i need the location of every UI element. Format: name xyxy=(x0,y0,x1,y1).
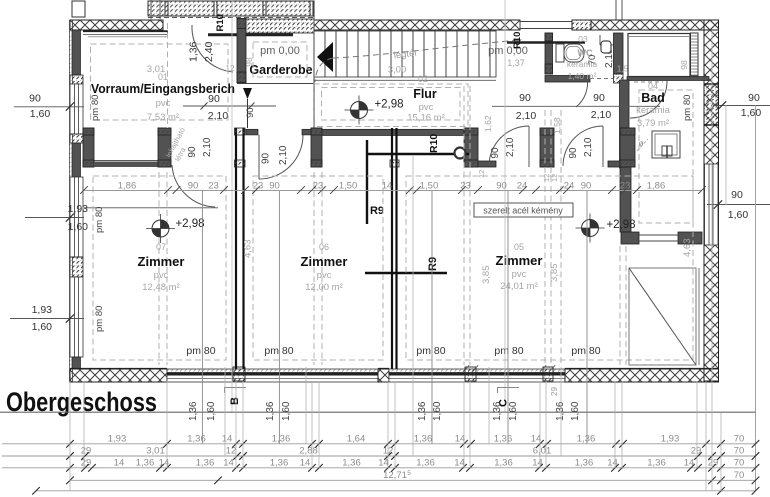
stair tread 5 xyxy=(368,31,370,77)
svg-text:90: 90 xyxy=(29,93,41,105)
outer wall right (cross-hatch) xyxy=(704,20,719,381)
window left mid xyxy=(70,177,83,257)
svg-text:Garderobe: Garderobe xyxy=(249,63,312,77)
left wall dark corner xyxy=(72,357,81,369)
left wall pier xyxy=(70,134,83,143)
svg-text:70: 70 xyxy=(734,433,745,444)
outer wall bottom seg3 (cross-hatch) xyxy=(565,369,719,382)
top wall pier diag hatch xyxy=(572,20,591,30)
svg-text:06: 06 xyxy=(319,242,329,252)
chimney vertical bold xyxy=(366,140,368,224)
dashed inset Bad xyxy=(639,90,693,223)
svg-text:B: B xyxy=(229,397,241,405)
svg-text:pm 80: pm 80 xyxy=(682,95,693,121)
svg-text:1,60: 1,60 xyxy=(68,221,89,233)
Bad tub (empty rect) xyxy=(628,34,690,77)
svg-text:1,36: 1,36 xyxy=(136,457,155,468)
svg-text:1,36: 1,36 xyxy=(272,433,291,444)
Bad south wall seg1 xyxy=(621,232,639,244)
stair tread 13 xyxy=(456,31,458,77)
stair tread 15 xyxy=(478,31,480,77)
svg-text:1,36: 1,36 xyxy=(555,401,566,421)
pipe circle xyxy=(455,148,466,159)
svg-text:1,36: 1,36 xyxy=(416,457,435,468)
svg-text:pm 80: pm 80 xyxy=(94,306,105,332)
svg-text:pm 80: pm 80 xyxy=(571,345,600,357)
svg-text:1,60: 1,60 xyxy=(30,108,51,120)
svg-text:1,86: 1,86 xyxy=(647,180,666,191)
svg-text:1,93: 1,93 xyxy=(108,433,127,444)
dashed inset Garderobe xyxy=(253,42,307,77)
outer wall top seg left (cross-hatch) xyxy=(70,20,163,30)
section line B xyxy=(231,0,233,412)
garderobe west wall post xyxy=(237,19,246,83)
walking line into garderobe xyxy=(315,58,333,82)
stair tread 7 xyxy=(390,31,392,77)
stair tread 10 xyxy=(423,31,425,77)
small wall stub top-left corner xyxy=(72,1,85,17)
stair tread 16 xyxy=(489,31,491,77)
lintel over WC xyxy=(520,22,572,29)
window centerline xyxy=(507,191,509,444)
svg-text:90: 90 xyxy=(581,180,592,191)
svg-text:Flur: Flur xyxy=(413,87,437,101)
Bad west wall xyxy=(620,80,630,168)
band post at left wall xyxy=(83,128,94,167)
stair tread 4 xyxy=(357,31,359,77)
garderobe top wall diag hatch xyxy=(246,19,314,33)
svg-text:pvc: pvc xyxy=(156,98,171,109)
dashed pair chimney right xyxy=(544,110,546,365)
Bad west wall lower xyxy=(620,167,631,232)
svg-text:90: 90 xyxy=(245,107,256,118)
svg-text:14: 14 xyxy=(532,457,543,468)
level marker Zimmer1 xyxy=(152,220,169,237)
washbasin outer xyxy=(652,131,680,158)
stair tread 12 xyxy=(445,31,447,77)
svg-text:1,60: 1,60 xyxy=(432,401,443,421)
svg-text:29: 29 xyxy=(550,387,559,396)
band upper strip xyxy=(246,129,258,135)
svg-text:5: 5 xyxy=(407,470,411,477)
dashed pair Zimmer2 xyxy=(313,172,315,365)
window centerline xyxy=(201,191,203,444)
svg-text:pm 80: pm 80 xyxy=(94,207,105,233)
extension lines xyxy=(69,381,71,491)
svg-text:90: 90 xyxy=(496,180,507,191)
svg-text:90: 90 xyxy=(568,147,579,159)
svg-text:7,53 m²: 7,53 m² xyxy=(147,112,179,123)
WC door opening dashed xyxy=(590,78,613,80)
svg-text:Zimmer: Zimmer xyxy=(138,254,185,269)
svg-text:Zimmer: Zimmer xyxy=(301,254,348,269)
radiator strip xyxy=(691,33,699,76)
interior dimension chain line xyxy=(84,190,702,192)
stairs bottom second line xyxy=(314,79,496,81)
svg-text:90: 90 xyxy=(490,147,501,159)
outer wall top seg middle (cross-hatch) xyxy=(314,20,520,30)
svg-text:6,01: 6,01 xyxy=(533,446,552,457)
svg-text:2,10: 2,10 xyxy=(278,145,289,165)
svg-text:1,37: 1,37 xyxy=(507,58,525,68)
toilet bowl xyxy=(564,44,584,62)
svg-text:1,93: 1,93 xyxy=(68,203,89,215)
band post chimney corner xyxy=(464,128,478,167)
svg-text:1,50: 1,50 xyxy=(339,180,358,191)
band post Bad corner xyxy=(620,128,635,167)
dashed inset Vorraum xyxy=(91,44,229,120)
title underline xyxy=(0,411,756,413)
svg-text:12,00 m²: 12,00 m² xyxy=(305,282,343,293)
svg-text:R10: R10 xyxy=(428,134,440,153)
svg-text:90: 90 xyxy=(519,92,531,104)
svg-text:pm 0,00: pm 0,00 xyxy=(260,45,300,57)
svg-text:pm 80: pm 80 xyxy=(186,345,215,357)
band upper strip xyxy=(302,129,311,135)
outer wall bottom seg2 (cross-hatch) xyxy=(378,369,389,382)
svg-text:1,36: 1,36 xyxy=(492,401,503,421)
garderobe east boundary xyxy=(313,16,315,128)
svg-text:02: 02 xyxy=(418,74,428,84)
chimney horizontal bold xyxy=(367,153,470,155)
svg-text:R10: R10 xyxy=(512,32,523,49)
svg-text:1,36: 1,36 xyxy=(187,433,206,444)
svg-text:pvc: pvc xyxy=(317,270,332,281)
svg-text:1,36: 1,36 xyxy=(575,457,594,468)
bottom wall pier xyxy=(543,367,553,381)
svg-text:1,60: 1,60 xyxy=(508,401,519,421)
band post xyxy=(540,128,554,167)
wall stairs/WC xyxy=(545,33,553,74)
svg-text:1,36: 1,36 xyxy=(196,457,215,468)
svg-text:R9: R9 xyxy=(427,257,439,271)
svg-text:1,60: 1,60 xyxy=(206,401,217,421)
dashed pair chimney left xyxy=(463,86,465,365)
stub lines above Bad west wall xyxy=(615,0,617,20)
dashed inset Zimmer3 xyxy=(406,176,693,360)
WC/Bad upper wall xyxy=(614,33,624,74)
svg-text:70: 70 xyxy=(734,446,745,457)
WC door arc xyxy=(576,77,588,107)
svg-text:1,36: 1,36 xyxy=(494,457,513,468)
chimney horizontal bold 2 xyxy=(365,272,447,274)
svg-text:pm 80: pm 80 xyxy=(90,95,101,121)
left wall pier xyxy=(70,257,83,277)
svg-text:90: 90 xyxy=(187,146,198,158)
dashed inset Zimmer2 xyxy=(253,176,383,360)
WC handrail thick line xyxy=(507,41,585,44)
svg-text:1,36: 1,36 xyxy=(414,433,433,444)
garderobe door wedge xyxy=(243,88,252,99)
entrance sidelight beam xyxy=(83,30,168,32)
stair walking line xyxy=(333,40,520,58)
svg-text:3,79 m²: 3,79 m² xyxy=(637,118,669,129)
dim row lines xyxy=(2,443,756,445)
svg-text:90: 90 xyxy=(261,152,272,164)
block divider 2 xyxy=(213,1,215,16)
garderobe shelf thick line xyxy=(208,33,293,36)
stair tread 8 xyxy=(401,31,403,77)
svg-text:1,36: 1,36 xyxy=(577,433,596,444)
svg-text:3,01: 3,01 xyxy=(146,446,165,457)
outer wall top seg right (cross-hatch) xyxy=(591,20,719,30)
door Zimmer3b arc xyxy=(563,126,603,166)
svg-text:90: 90 xyxy=(269,180,280,191)
bottom window band 1 xyxy=(167,369,378,382)
svg-text:1,36: 1,36 xyxy=(270,457,289,468)
svg-text:1,60: 1,60 xyxy=(281,401,292,421)
svg-text:12: 12 xyxy=(477,170,486,178)
svg-text:98: 98 xyxy=(679,60,689,70)
svg-text:3,85: 3,85 xyxy=(549,264,560,283)
svg-text:70: 70 xyxy=(587,55,598,66)
outer wall left: outer hatch strip xyxy=(70,20,73,382)
stair tread 9 xyxy=(412,31,414,77)
svg-text:4,63: 4,63 xyxy=(682,239,693,258)
svg-text:2,10: 2,10 xyxy=(516,110,537,122)
band post xyxy=(158,128,171,167)
stair tread 1 xyxy=(324,31,326,77)
svg-text:1,50: 1,50 xyxy=(420,180,439,191)
left wall dark core upper xyxy=(72,30,81,75)
stair tread 11 xyxy=(434,31,436,77)
svg-text:24: 24 xyxy=(517,180,528,191)
svg-text:70: 70 xyxy=(734,457,745,468)
svg-text:1,64: 1,64 xyxy=(347,433,366,444)
Bad door opening dashes xyxy=(634,81,663,83)
svg-text:Zimmer: Zimmer xyxy=(496,253,543,268)
svg-text:1,36: 1,36 xyxy=(342,457,361,468)
lower strip xyxy=(478,161,496,167)
bottom wall pier xyxy=(233,367,245,381)
svg-text:05: 05 xyxy=(514,242,524,252)
door dim line xyxy=(183,105,276,107)
garderobe south edge xyxy=(237,83,314,85)
svg-text:14: 14 xyxy=(378,457,389,468)
svg-text:1,60: 1,60 xyxy=(32,321,53,333)
svg-text:pvc: pvc xyxy=(512,269,527,280)
svg-text:14: 14 xyxy=(382,180,393,191)
walking line arrowhead xyxy=(514,39,522,44)
section line C xyxy=(504,0,506,412)
door Zimmer2 leaf xyxy=(258,135,260,179)
svg-text:90: 90 xyxy=(748,92,760,104)
window left lower xyxy=(70,277,83,357)
washbasin sq xyxy=(662,146,672,156)
svg-text:1,86: 1,86 xyxy=(118,180,137,191)
window right lower xyxy=(705,164,719,245)
svg-text:Vorraum/Eingangsberich: Vorraum/Eingangsberich xyxy=(91,82,235,96)
svg-text:1,36: 1,36 xyxy=(494,433,513,444)
stair tread 3 xyxy=(346,31,348,77)
block divider 4 xyxy=(309,1,311,16)
svg-text:1,36: 1,36 xyxy=(265,401,276,421)
Flur south wall strip xyxy=(322,129,464,135)
window centerline xyxy=(586,191,588,444)
block divider 3 xyxy=(262,1,264,16)
door Zimmer3a arc xyxy=(489,126,529,166)
lower wall strip Zimmer1 north xyxy=(94,160,158,162)
svg-text:4,63: 4,63 xyxy=(243,240,254,259)
svg-text:3,85: 3,85 xyxy=(481,266,492,285)
svg-text:2,10: 2,10 xyxy=(583,137,594,157)
svg-text:+2,98: +2,98 xyxy=(606,219,635,231)
svg-text:12: 12 xyxy=(226,446,237,457)
bottom wall inner edge xyxy=(70,368,167,370)
svg-text:2,10: 2,10 xyxy=(505,137,516,157)
svg-text:14: 14 xyxy=(222,433,233,444)
outer wall bottom seg1 (cross-hatch) xyxy=(70,369,167,382)
WC south wall xyxy=(545,76,590,83)
small device xyxy=(601,41,611,53)
svg-text:14: 14 xyxy=(454,457,465,468)
window centerline xyxy=(278,191,280,444)
svg-text:1,36: 1,36 xyxy=(188,401,199,421)
svg-text:23: 23 xyxy=(253,180,264,191)
svg-text:90: 90 xyxy=(188,180,199,191)
Bad south window lines xyxy=(639,234,678,236)
svg-text:03: 03 xyxy=(578,34,588,44)
window centerline xyxy=(431,191,433,444)
section marker bracket B xyxy=(225,388,247,394)
svg-text:07: 07 xyxy=(156,242,166,252)
svg-text:szerelt acél kémény: szerelt acél kémény xyxy=(483,206,563,216)
left wall dark core mid xyxy=(72,143,81,177)
Bad north wall strip xyxy=(627,77,709,81)
stub lines left of block xyxy=(150,0,152,19)
svg-text:70: 70 xyxy=(734,470,745,481)
svg-text:12,71: 12,71 xyxy=(383,470,407,481)
svg-text:1,60: 1,60 xyxy=(570,401,581,421)
svg-text:2,10: 2,10 xyxy=(202,137,213,157)
svg-text:14: 14 xyxy=(300,457,311,468)
svg-text:24: 24 xyxy=(564,180,575,191)
svg-text:90: 90 xyxy=(593,92,605,104)
svg-text:pvc: pvc xyxy=(419,102,434,113)
svg-text:1,60: 1,60 xyxy=(741,107,762,119)
hatched overhead block above entrance xyxy=(148,1,314,16)
chimney note box xyxy=(474,203,573,217)
door Zimmer1 arc xyxy=(172,165,215,207)
stair tread 14 xyxy=(467,31,469,77)
svg-text:pm 80: pm 80 xyxy=(494,345,523,357)
dashed inset Flur inner xyxy=(322,88,461,121)
lower strip right xyxy=(608,161,620,167)
dashed inset Flur outer xyxy=(314,84,469,127)
svg-text:1,60: 1,60 xyxy=(728,209,749,221)
svg-text:15,16 m²: 15,16 m² xyxy=(407,113,445,124)
window right upper (hatched) xyxy=(704,84,719,125)
svg-text:+2,98: +2,98 xyxy=(374,99,403,111)
svg-text:90: 90 xyxy=(731,189,743,201)
bottom window band 2 xyxy=(389,369,565,382)
left wall pier xyxy=(70,75,83,84)
level marker Flur xyxy=(351,102,368,119)
svg-text:R9: R9 xyxy=(370,205,384,217)
partition Zimmer1/2 double bold xyxy=(235,128,237,369)
svg-text:+2,98: +2,98 xyxy=(175,218,204,230)
door Zimmer2 arc xyxy=(259,135,303,179)
svg-text:12: 12 xyxy=(226,64,235,73)
svg-text:1,36: 1,36 xyxy=(647,457,666,468)
svg-text:23: 23 xyxy=(208,180,219,191)
Bad south wall seg2 xyxy=(678,232,702,244)
dashed inset Zimmer1 xyxy=(93,176,226,360)
level marker Zimmer3 xyxy=(582,220,599,237)
window left upper xyxy=(70,84,83,134)
stair tread 2 xyxy=(335,31,337,77)
nook dims header line xyxy=(492,105,660,107)
svg-text:3,00: 3,00 xyxy=(388,65,407,76)
svg-text:1,93: 1,93 xyxy=(661,433,680,444)
dashed jamb line xyxy=(167,23,169,128)
stair tread 6 xyxy=(379,31,381,77)
band post at x311 xyxy=(311,128,322,167)
section marker bracket C xyxy=(498,388,520,394)
toilet tank xyxy=(556,44,564,62)
washbasin inner xyxy=(655,134,677,155)
svg-text:24,01 m²: 24,01 m² xyxy=(500,281,538,292)
dashed pair Zimmer1 xyxy=(158,172,160,365)
niche lines xyxy=(599,35,601,45)
right frame vertical xyxy=(755,105,757,490)
entrance door arc xyxy=(192,25,233,72)
bottom wall pier xyxy=(465,367,476,381)
partition Zimmer2/3 double bold xyxy=(391,128,393,369)
svg-text:1,40 m²: 1,40 m² xyxy=(568,71,597,81)
svg-text:14: 14 xyxy=(223,457,234,468)
right wall inner edge xyxy=(703,20,705,382)
stair direction wedge xyxy=(317,42,333,72)
Bad door arc xyxy=(630,81,667,118)
svg-text:pvc: pvc xyxy=(154,270,169,281)
block divider 1 xyxy=(164,1,166,16)
svg-text:R10: R10 xyxy=(215,14,226,31)
void box xyxy=(629,268,696,365)
staircase outline xyxy=(314,31,496,77)
svg-text:pm 80: pm 80 xyxy=(416,345,445,357)
svg-text:01: 01 xyxy=(158,72,168,82)
svg-text:Bad: Bad xyxy=(641,91,665,105)
dashed pair right room xyxy=(619,246,621,365)
svg-text:2,10: 2,10 xyxy=(591,109,612,121)
svg-text:12,48 m²: 12,48 m² xyxy=(142,282,180,293)
svg-text:14: 14 xyxy=(114,457,125,468)
svg-text:1,36: 1,36 xyxy=(417,401,428,421)
svg-text:1,93: 1,93 xyxy=(32,304,53,316)
svg-text:1,62: 1,62 xyxy=(483,115,493,132)
